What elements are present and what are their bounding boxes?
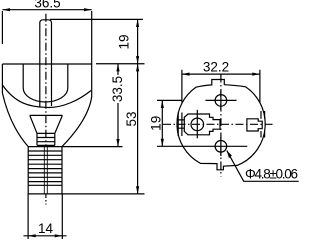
- inner U channel: [23, 64, 68, 102]
- right recess slot: [261, 111, 265, 138]
- leader line for pin diameter: [227, 151, 299, 182]
- dimension 32.2 line: [182, 73, 260, 75]
- earth plate hole: [191, 118, 204, 131]
- body left edge: [1, 64, 3, 93]
- right clip housing: [247, 119, 262, 131]
- pin P1 (side view): [40, 20, 52, 64]
- extension lines 32.2: [182, 70, 260, 103]
- extension lines 19 (front view): [157, 100, 206, 146]
- dimension 36.5 line: [2, 9, 91, 11]
- rib lines: [28, 147, 62, 186]
- ribbed strain relief outline: [28, 147, 62, 194]
- left recess slot: [178, 113, 182, 137]
- inner dish arc: [2, 85, 91, 107]
- svg-text:19: 19: [116, 34, 131, 49]
- left neck profile curve: [2, 93, 28, 147]
- svg-text:53: 53: [124, 111, 139, 126]
- svg-text:Φ4.8±0.06: Φ4.8±0.06: [245, 167, 298, 182]
- dimension 53 line: [137, 64, 139, 194]
- cable sheath lines: [28, 194, 62, 239]
- inner screw shaft double lines: [44, 145, 47, 194]
- pin bottom crosshair: [206, 137, 248, 156]
- earth plate hole crosshair: [196, 110, 198, 139]
- horizontal centerline: [163, 123, 274, 125]
- dimension 19 arrows: [136, 19, 139, 27]
- pin hole top: [215, 95, 227, 107]
- body bottom line + extension (for 53): [28, 193, 145, 195]
- plug face line: [2, 63, 92, 65]
- dimension 53 arrows: [136, 64, 139, 72]
- left clip stub: [177, 120, 185, 128]
- svg-text:32.2: 32.2: [203, 60, 229, 75]
- extension line right (merges into body right edge): [91, 11, 93, 64]
- dimension 33.5 label: [113, 75, 124, 103]
- svg-text:33.5: 33.5: [110, 76, 125, 102]
- body right edge: [91, 64, 93, 97]
- dimension 19 line: [137, 19, 139, 63]
- dimension 14 arrows: [28, 234, 36, 237]
- right neck profile curve: [62, 97, 92, 147]
- svg-text:36.5: 36.5: [34, 0, 60, 11]
- dimension 19 line (front view): [161, 100, 163, 146]
- dimension 14 line: [24, 235, 67, 237]
- dimension 32.2 arrows: [182, 73, 190, 76]
- clamp stack detail: [37, 133, 55, 145]
- rib top extension line (for 33.5): [62, 146, 123, 148]
- centerline (left view vertical axis): [45, 14, 47, 146]
- pin hole bottom: [215, 141, 227, 153]
- svg-text:14: 14: [38, 221, 54, 236]
- dimension 19 arrows (front view): [161, 100, 164, 108]
- central shaft lines: [40, 64, 52, 107]
- svg-text:19: 19: [149, 116, 164, 131]
- leader arrow: [227, 151, 232, 159]
- pin top crosshair: [206, 91, 237, 110]
- funnel detail: [30, 115, 63, 133]
- earth plate: [184, 114, 220, 135]
- pin top extension line: [50, 18, 143, 20]
- dimension 36.5 arrows: [2, 8, 10, 11]
- dimension 33.5 line: [117, 64, 119, 147]
- face extension line: [96, 63, 145, 65]
- plug face outline (front view): [177, 80, 265, 170]
- extension line left: [1, 11, 3, 44]
- dimension 33.5 arrows: [116, 64, 119, 72]
- vertical centerline: [220, 75, 222, 177]
